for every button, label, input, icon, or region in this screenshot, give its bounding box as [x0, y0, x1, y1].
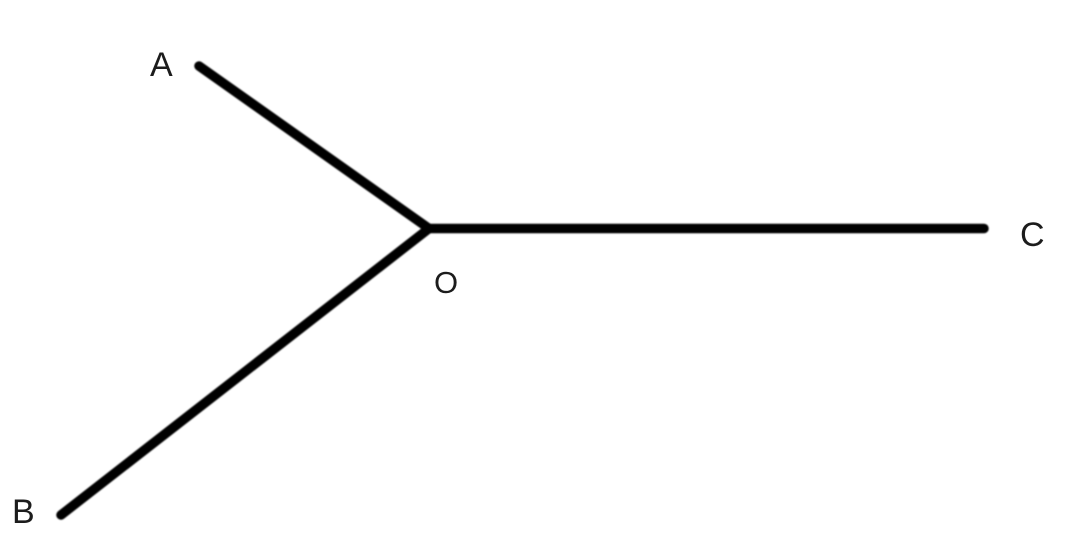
svg-text:C: C	[1020, 216, 1045, 254]
ray OB	[61, 229, 429, 516]
ray OA	[199, 66, 429, 229]
ray OC	[429, 224, 984, 234]
svg-text:B: B	[12, 493, 35, 531]
svg-text:A: A	[150, 46, 173, 84]
svg-text:O: O	[434, 265, 458, 300]
